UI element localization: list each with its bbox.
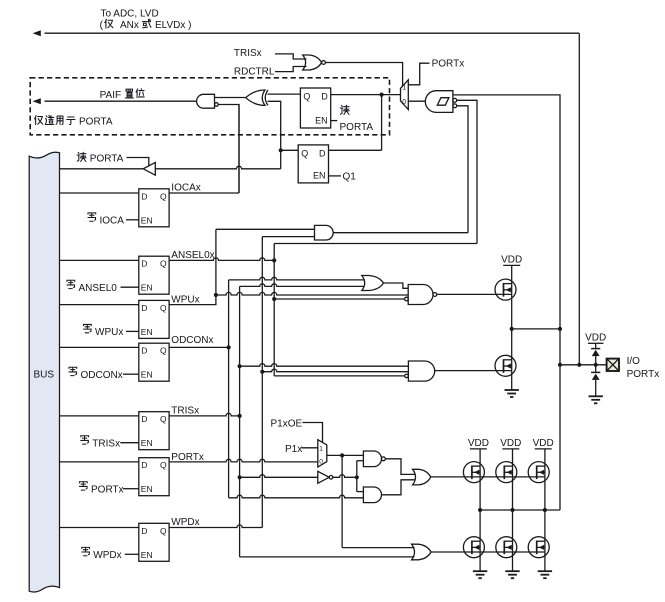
svg-text:ANSEL0: ANSEL0 (79, 283, 118, 294)
svg-text:ODCONx: ODCONx (171, 335, 213, 346)
svg-text:D: D (141, 259, 147, 269)
svg-text:PORTA: PORTA (90, 154, 124, 165)
svg-text:EN: EN (313, 170, 326, 180)
svg-text:D: D (141, 460, 147, 470)
svg-text:Q: Q (160, 460, 167, 470)
svg-text:D: D (141, 303, 147, 313)
svg-text:PORTA: PORTA (79, 117, 113, 128)
svg-text:Q: Q (160, 191, 167, 201)
svg-text:EN: EN (141, 370, 153, 380)
svg-text:To ADC, LVD: To ADC, LVD (101, 9, 159, 20)
svg-text:D: D (321, 92, 328, 102)
svg-text:EN: EN (141, 215, 153, 225)
svg-text:Q: Q (160, 346, 167, 356)
svg-text:VDD: VDD (533, 438, 554, 449)
svg-text:Q: Q (160, 303, 167, 313)
svg-text:WPDx: WPDx (171, 517, 199, 528)
svg-text:VDD: VDD (500, 438, 521, 449)
svg-text:VDD: VDD (468, 438, 489, 449)
svg-text:1: 1 (319, 446, 323, 453)
svg-text:PORTx: PORTx (171, 452, 204, 463)
svg-text:(: ( (100, 19, 104, 31)
svg-text:IOCA: IOCA (100, 215, 125, 226)
svg-text:EN: EN (141, 484, 153, 494)
svg-text:PAIF: PAIF (100, 90, 121, 101)
svg-text:I/O: I/O (627, 356, 641, 367)
svg-text:D: D (141, 191, 147, 201)
svg-text:EN: EN (315, 116, 328, 126)
svg-text:RDCTRL: RDCTRL (234, 66, 275, 77)
svg-text:VDD: VDD (585, 332, 606, 343)
svg-text:P1xOE: P1xOE (271, 419, 303, 430)
svg-text:0: 0 (319, 459, 323, 466)
svg-text:WPDx: WPDx (93, 550, 121, 561)
svg-text:PORTx: PORTx (627, 369, 660, 380)
svg-text:EN: EN (141, 283, 153, 293)
svg-text:WPUx: WPUx (95, 327, 123, 338)
svg-text:EN: EN (141, 438, 153, 448)
svg-text:EN: EN (141, 550, 153, 560)
svg-text:TRISx: TRISx (234, 48, 262, 59)
svg-text:D: D (141, 346, 147, 356)
svg-text:PORTx: PORTx (432, 59, 465, 70)
svg-text:BUS: BUS (34, 370, 55, 381)
svg-text:P1x: P1x (285, 444, 302, 455)
svg-text:1: 1 (402, 84, 406, 91)
svg-text:ODCONx: ODCONx (81, 370, 123, 381)
svg-text:Q: Q (160, 259, 167, 269)
svg-text:Q: Q (303, 92, 310, 102)
svg-text:PORTA: PORTA (340, 122, 374, 133)
svg-text:PORTx: PORTx (91, 484, 124, 495)
svg-text:TRISx: TRISx (92, 438, 120, 449)
svg-text:Q1: Q1 (343, 172, 357, 183)
svg-text:0: 0 (402, 99, 406, 106)
svg-text:Q: Q (301, 148, 308, 158)
svg-text:EN: EN (141, 327, 153, 337)
svg-text:D: D (141, 414, 147, 424)
svg-text:Q: Q (160, 526, 167, 536)
svg-text:ELVDx ): ELVDx ) (155, 20, 192, 31)
svg-text:D: D (141, 526, 147, 536)
svg-text:Q: Q (160, 414, 167, 424)
svg-text:D: D (319, 148, 326, 158)
svg-text:VDD: VDD (501, 254, 522, 265)
svg-text:TRISx: TRISx (171, 406, 199, 417)
svg-text:ANx: ANx (120, 20, 139, 31)
svg-text:ANSEL0x: ANSEL0x (171, 250, 214, 261)
svg-text:IOCAx: IOCAx (171, 183, 200, 194)
